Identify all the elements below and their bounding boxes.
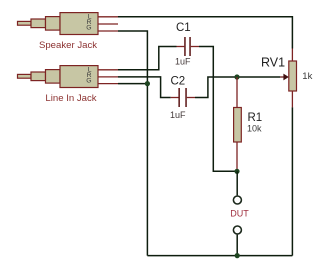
wire: DUT- terminal to bottom rail — [236, 235, 238, 256]
svg-text:DUT: DUT — [230, 208, 249, 218]
svg-text:G: G — [86, 24, 91, 31]
wire: speaker G pin down the left bus to bottom rail — [118, 31, 147, 256]
line in jack pin names L R G — [86, 67, 92, 85]
svg-text:C2: C2 — [171, 75, 186, 87]
wire: speaker L pin to RV1 top (top rail) — [118, 17, 292, 49]
capacitor C2 — [171, 88, 195, 107]
svg-text:10k: 10k — [247, 123, 262, 133]
svg-text:Speaker Jack: Speaker Jack — [39, 40, 97, 51]
svg-text:Line In Jack: Line In Jack — [45, 93, 96, 104]
wire: node to DUT+ terminal — [236, 171, 238, 195]
wire: bottom return rail — [147, 255, 292, 257]
speaker jack J1 — [18, 13, 99, 35]
svg-text:1uF: 1uF — [170, 110, 186, 120]
svg-text:R1: R1 — [248, 112, 263, 124]
speaker jack pin R (unconnected stub) — [98, 23, 118, 25]
svg-text:RV1: RV1 — [261, 55, 285, 69]
wire: line-in R pin to C2 left — [118, 77, 171, 98]
line in jack pin G — [98, 83, 118, 85]
junction: wiper wire / R1 top — [234, 74, 239, 79]
capacitor C1 — [177, 37, 200, 56]
speaker jack pin L — [98, 16, 118, 18]
potentiometer RV1 — [280, 49, 297, 108]
junction: R1 bottom / C1 branch / DUT top — [234, 169, 239, 174]
speaker jack pin G — [98, 30, 118, 32]
junction: line-in G at bus — [145, 81, 150, 86]
wire: C2 right up to RV1 wiper row — [195, 77, 280, 98]
line in jack pin R — [98, 76, 118, 78]
line in jack pin L — [98, 69, 118, 71]
svg-text:C1: C1 — [176, 22, 191, 34]
junction: DUT- at bottom rail — [235, 253, 240, 258]
terminal DUT+ circle — [233, 196, 241, 204]
line in jack J2 — [18, 66, 99, 88]
svg-text:1uF: 1uF — [175, 57, 191, 67]
terminal DUT- circle — [233, 226, 241, 234]
wire: line-in G pin to bus junction — [118, 83, 147, 85]
wire: C1 right down to R1 bottom node — [199, 47, 237, 172]
svg-text:G: G — [86, 77, 91, 84]
wire: line-in L pin to C1 left — [118, 47, 177, 70]
resistor R1 — [234, 77, 242, 171]
wire: RV1 bottom to bottom rail — [291, 107, 293, 255]
svg-text:1k: 1k — [302, 71, 312, 82]
speaker jack pin names L R G — [86, 14, 92, 32]
